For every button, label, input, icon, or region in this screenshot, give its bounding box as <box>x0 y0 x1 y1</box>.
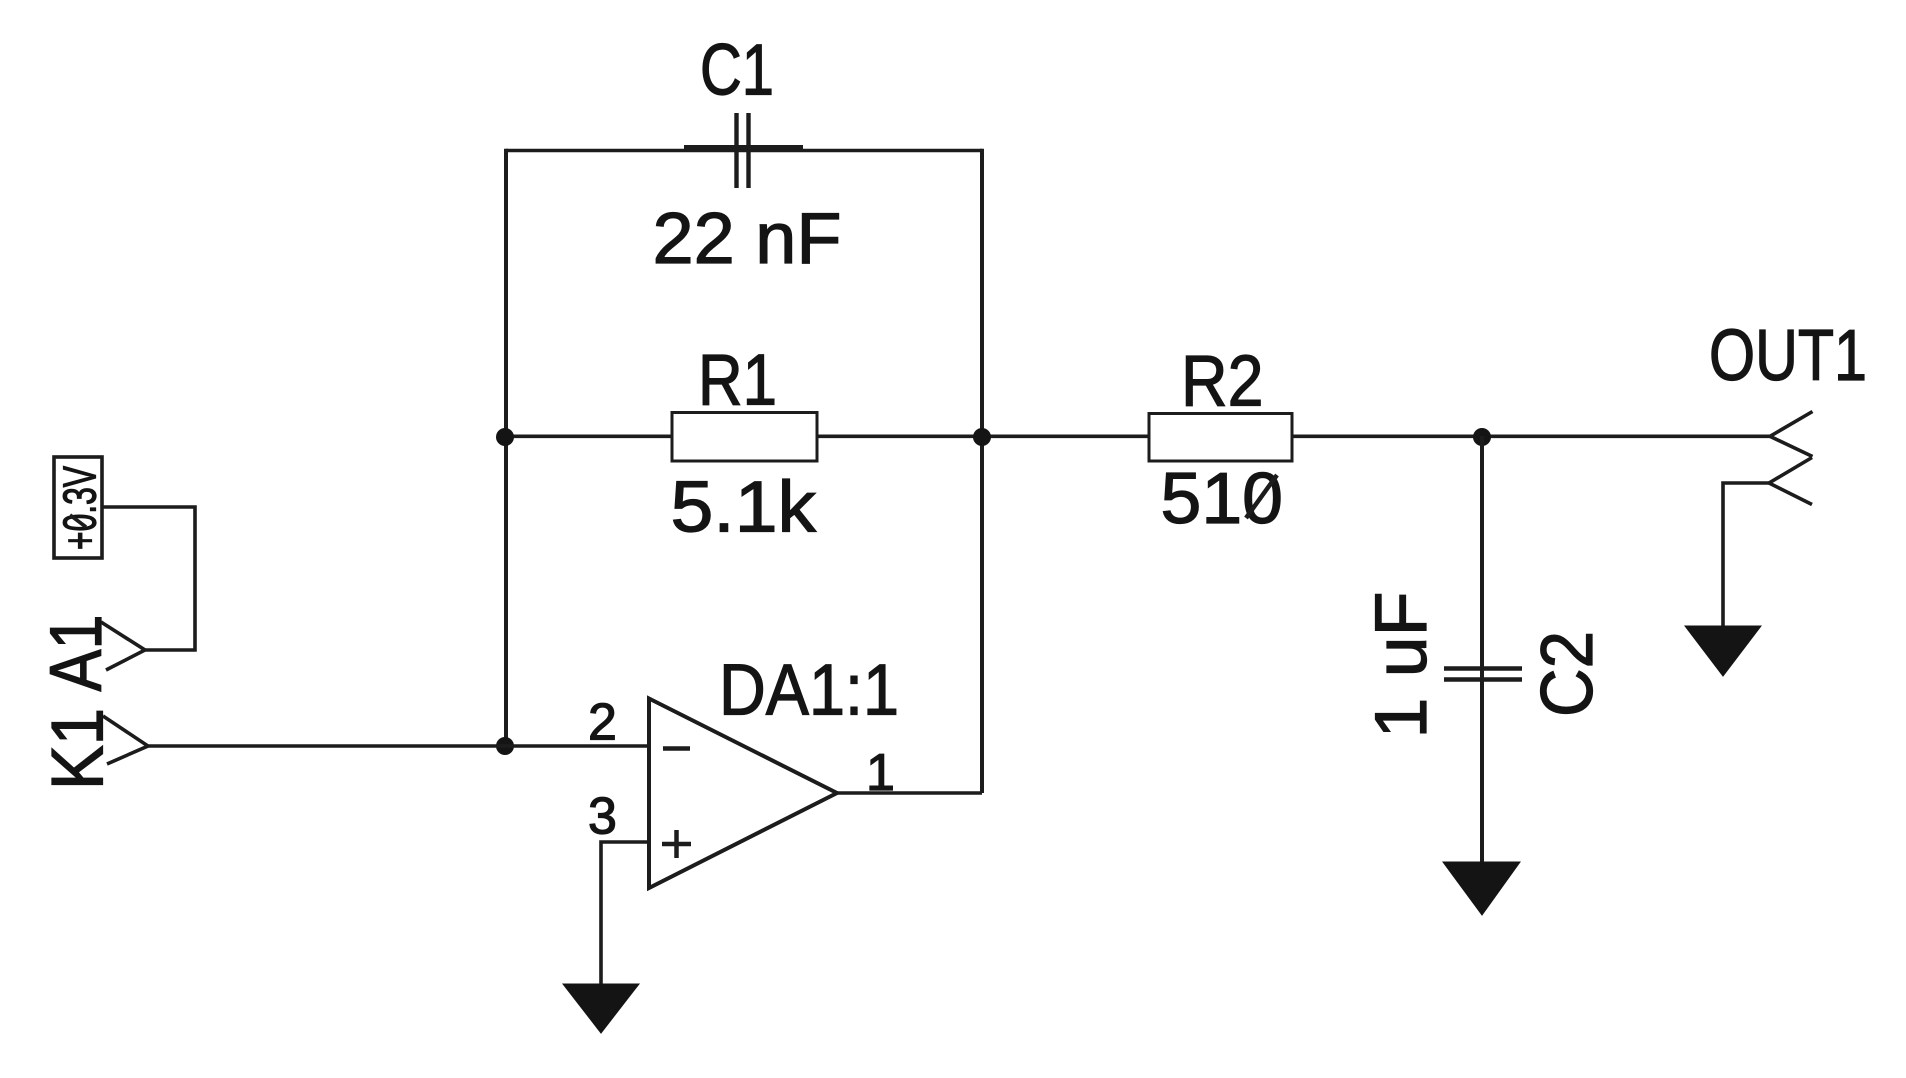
op-amp DA1:1 <box>649 699 837 889</box>
ground (op-amp + input) <box>563 984 639 1033</box>
connector OUT1 pin 1 chevron <box>1770 412 1813 457</box>
svg-text:5.1k: 5.1k <box>671 468 818 548</box>
node junction (1482,437) <box>1473 428 1491 446</box>
svg-text:510: 510 <box>1161 459 1284 539</box>
wire: middle horizontal between R1 and R2 <box>817 434 1150 438</box>
wire: op-amp non-inverting input to ground <box>601 842 649 984</box>
wire: OUT1 pin 2 to ground <box>1723 483 1769 626</box>
wire: C1 lead segment (thick, slightly above wire) <box>684 145 803 150</box>
power label +0.3V text (rotated, slashed zero) <box>54 466 106 550</box>
svg-text:A1: A1 <box>36 615 117 692</box>
node junction (982,437) <box>973 428 991 446</box>
svg-text:2: 2 <box>588 694 617 752</box>
resistor R1 <box>672 413 817 462</box>
node junction (506,437) <box>496 428 514 446</box>
svg-text:R1: R1 <box>698 341 777 421</box>
svg-text:+0.3V: +0.3V <box>54 466 106 550</box>
capacitor C2 <box>1444 669 1522 680</box>
ground (OUT1) <box>1685 626 1761 676</box>
svg-text:DA1:1: DA1:1 <box>719 651 899 731</box>
connector OUT1 pin 2 chevron <box>1769 458 1812 505</box>
connector K1 pin A1 chevron <box>101 622 145 670</box>
value 510 (slashed zero) <box>1161 459 1284 539</box>
svg-text:22 nF: 22 nF <box>653 199 842 279</box>
wire: op-amp output pin 1 <box>837 791 982 795</box>
capacitor C1 <box>737 113 749 188</box>
wire: middle horizontal from R2 to OUT1 <box>1292 434 1770 438</box>
svg-text:1 uF: 1 uF <box>1361 592 1442 739</box>
svg-text:C2: C2 <box>1527 631 1608 717</box>
wire: K1 to op-amp inverting input <box>148 744 649 748</box>
resistor R2 <box>1149 414 1292 462</box>
svg-text:C1: C1 <box>700 31 774 111</box>
wire: feedback loop top horizontal <box>506 149 982 153</box>
connector K1 pin K1 chevron <box>103 716 148 764</box>
ground (C2) <box>1443 862 1520 915</box>
wire: A1 to +0.3V label <box>102 507 195 650</box>
svg-text:OUT1: OUT1 <box>1709 316 1867 396</box>
power label +0.3V box <box>54 457 102 558</box>
wire: right vertical of feedback loop <box>980 149 984 793</box>
svg-text:K1: K1 <box>38 708 119 790</box>
wire: C2 vertical <box>1480 436 1484 862</box>
svg-text:R2: R2 <box>1181 342 1264 422</box>
svg-text:3: 3 <box>588 788 617 846</box>
node junction (505,746) <box>496 737 514 755</box>
wire: left vertical of feedback loop <box>504 149 508 746</box>
wire: middle horizontal R1 row, left segment <box>506 434 673 438</box>
